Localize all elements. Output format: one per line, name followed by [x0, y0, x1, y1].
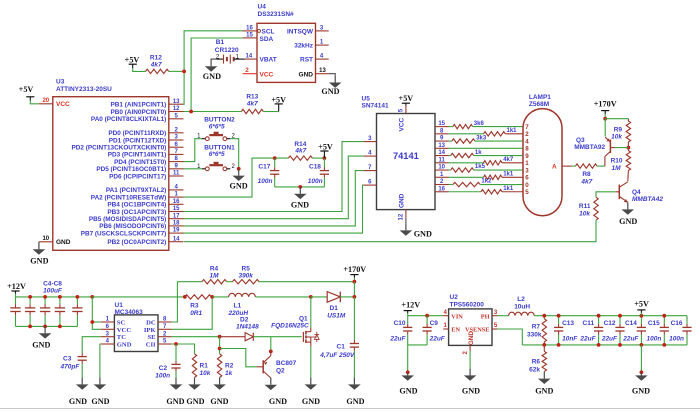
- pin 16 SCL of U4: [242, 30, 257, 32]
- capacitor C17 100n: [274, 158, 276, 167]
- capacitor C1 4,7uF 250V: [353, 297, 355, 340]
- ground at buttons: [238, 169, 240, 176]
- svg-text:4k7: 4k7: [503, 157, 514, 163]
- resistor 3k3 digit row 3: [452, 139, 475, 143]
- pin 2 PD0 of U3: [169, 132, 184, 134]
- svg-text:10: 10: [438, 165, 445, 171]
- svg-text:R2: R2: [225, 362, 234, 369]
- svg-text:C14: C14: [625, 320, 637, 327]
- svg-text:U2: U2: [450, 294, 459, 301]
- capacitor C11 22uF: [598, 316, 600, 324]
- svg-text:GND: GND: [399, 387, 417, 396]
- svg-text:10k: 10k: [579, 211, 590, 218]
- svg-text:1: 1: [525, 160, 529, 167]
- junction Q2 emitter: [269, 350, 273, 354]
- pin 2 of U5: [435, 184, 449, 186]
- svg-text:U5: U5: [362, 96, 371, 103]
- wire gate node down to Q2 emitter: [270, 337, 272, 350]
- wire +5V to R12: [133, 68, 146, 71]
- pin 1 PA2 of U3: [169, 196, 184, 198]
- wire C10/C9 bottom: [408, 344, 427, 346]
- capacitor C18 100n: [323, 158, 325, 167]
- ground at R1: [194, 378, 196, 385]
- pin 19 PB7 of U3: [169, 232, 184, 234]
- junction D2 anode: [218, 335, 222, 339]
- junction cap bank top: [76, 295, 80, 299]
- resistor R4 1M: [202, 280, 227, 284]
- page frame bottom: [0, 408, 700, 410]
- wire R14 to C18 node: [312, 157, 324, 159]
- svg-text:C15: C15: [648, 320, 660, 327]
- svg-text:PB6 (MISODOPCINT6): PB6 (MISODOPCINT6): [99, 223, 166, 230]
- svg-text:19: 19: [173, 228, 180, 234]
- wire IPK to R3 right: [172, 297, 213, 329]
- wire L1 to Q1 drain node: [255, 296, 310, 298]
- svg-text:GND: GND: [91, 397, 109, 406]
- svg-text:GND: GND: [229, 181, 247, 190]
- wire C10 to ground: [407, 345, 409, 372]
- wire resistor to lamp: [473, 126, 524, 128]
- wire resistor to lamp: [502, 191, 523, 193]
- svg-text:6: 6: [525, 175, 529, 182]
- wire SCL net PB1 to U4: [184, 31, 243, 104]
- svg-text:R8: R8: [582, 171, 591, 178]
- svg-text:+5V: +5V: [318, 142, 333, 151]
- ground at R6: [543, 372, 545, 379]
- svg-text:R6: R6: [532, 359, 541, 366]
- resistor 1k1 digit row 10: [481, 190, 502, 194]
- svg-text:+5V: +5V: [271, 95, 286, 104]
- wire PB7 to U5 pin 6: [184, 185, 364, 233]
- svg-text:C17: C17: [258, 163, 270, 170]
- svg-text:GND: GND: [468, 331, 475, 345]
- svg-text:10k: 10k: [611, 134, 622, 141]
- pin 12 PB0 of U3: [169, 111, 184, 113]
- wire R13 to +5V: [263, 111, 278, 113]
- svg-text:GND: GND: [203, 72, 221, 81]
- svg-text:DS3231SN#: DS3231SN#: [258, 11, 295, 18]
- svg-text:32kHz: 32kHz: [294, 43, 314, 50]
- svg-text:74141: 74141: [393, 151, 419, 161]
- pin 3 INTSQW of U4: [316, 30, 329, 32]
- junction C18 top: [323, 156, 327, 160]
- pin 13 GND of U4: [316, 73, 329, 75]
- pin 4 RST of U4: [316, 58, 329, 60]
- svg-text:GND: GND: [299, 71, 314, 78]
- wire +170V to Q3 emitter: [604, 119, 606, 137]
- svg-text:+170V: +170V: [594, 99, 617, 108]
- pin 4 of U5: [363, 155, 376, 157]
- svg-text:PD0 (PCINT11RXD): PD0 (PCINT11RXD): [108, 130, 166, 137]
- svg-text:1M: 1M: [611, 165, 621, 172]
- svg-text:13: 13: [319, 68, 326, 74]
- wire resistor to lamp: [474, 169, 524, 171]
- svg-text:GND: GND: [69, 397, 87, 406]
- svg-text:R5: R5: [242, 265, 251, 272]
- resistor R14 4k7: [288, 156, 312, 160]
- rtc U4 DS3231SN# body: [257, 23, 316, 82]
- ground at Q4 emitter: [627, 203, 629, 210]
- ground at battery B1: [211, 58, 216, 60]
- pin 6 VCC of U1: [101, 328, 115, 330]
- pin 10 GND of U3: [39, 241, 53, 243]
- svg-text:GND: GND: [269, 397, 287, 406]
- junction +170V output: [353, 295, 357, 299]
- resistor R1 10k: [192, 354, 196, 378]
- wire resistor to lamp: [475, 140, 523, 142]
- capacitor C4-C8 element: [44, 297, 46, 304]
- resistor 4k7 digit row 6: [484, 161, 503, 165]
- pin 1 32kHz of U4: [316, 44, 329, 46]
- svg-text:GND: GND: [32, 341, 50, 350]
- svg-text:14: 14: [173, 236, 180, 242]
- svg-text:C1: C1: [337, 343, 346, 350]
- wire CII to C2/R1: [172, 344, 195, 354]
- nixie tube LAMP1 Z568M body: [523, 109, 562, 216]
- svg-text:12: 12: [399, 213, 405, 220]
- svg-text:GND: GND: [210, 397, 228, 406]
- wire VSENSE to divider: [497, 329, 522, 345]
- junction cap bank top: [28, 295, 32, 299]
- svg-text:U4: U4: [258, 4, 267, 11]
- ground at C10/C9: [407, 372, 409, 375]
- svg-text:8: 8: [525, 146, 529, 153]
- svg-text:62k: 62k: [529, 366, 540, 373]
- ground at C17/C18: [299, 187, 301, 194]
- svg-text:13: 13: [173, 99, 180, 105]
- svg-text:GND: GND: [186, 397, 204, 406]
- svg-text:+12V: +12V: [401, 300, 420, 309]
- pin 1 of U5: [435, 176, 449, 178]
- capacitor C16 100n: [686, 316, 688, 324]
- wire R3 to L1: [212, 296, 228, 298]
- svg-text:1k1: 1k1: [503, 171, 514, 177]
- capacitor C4-C8 element: [29, 297, 31, 304]
- wire R11 to PB2: [184, 220, 596, 242]
- svg-text:PB4 (OC1BPCINT4): PB4 (OC1BPCINT4): [107, 202, 166, 209]
- pin 10 of U5: [435, 169, 449, 171]
- svg-text:L1: L1: [234, 302, 242, 309]
- svg-text:+5V: +5V: [19, 85, 34, 94]
- svg-text:+5V: +5V: [634, 300, 649, 309]
- pin 12 GND of U5: [405, 210, 407, 218]
- ground at C3: [81, 378, 83, 385]
- svg-text:4k7: 4k7: [246, 101, 258, 108]
- svg-text:17: 17: [173, 213, 180, 219]
- pin 15 PB3 of U3: [169, 211, 184, 213]
- wire U5 to anode resistor row 1: [449, 126, 453, 128]
- inductor L2 10uH: [509, 312, 535, 316]
- junction SCL/R12: [182, 70, 186, 74]
- junction R7/R6: [542, 343, 546, 347]
- svg-text:1k1: 1k1: [503, 186, 514, 192]
- resistor R10 1M: [627, 148, 629, 151]
- inductor L1 220uH: [229, 293, 256, 297]
- svg-text:PB2 (OC0APCINT2): PB2 (OC0APCINT2): [107, 239, 166, 246]
- wire +12V top bus: [16, 296, 93, 298]
- svg-text:10nF: 10nF: [562, 336, 578, 343]
- svg-text:7: 7: [525, 124, 529, 131]
- svg-text:PD3 (PCINT14INT1): PD3 (PCINT14INT1): [108, 152, 167, 159]
- svg-text:PD1 (PCINT12TXD): PD1 (PCINT12TXD): [109, 137, 167, 144]
- svg-text:R11: R11: [579, 203, 591, 210]
- svg-text:GND: GND: [535, 387, 553, 396]
- resistor 1k1 digit row 8: [484, 175, 503, 179]
- svg-text:15: 15: [438, 121, 445, 127]
- wire D1 to +170V: [340, 296, 354, 298]
- svg-text:BUTTON2: BUTTON2: [204, 116, 235, 123]
- svg-text:ATTINY2313-20SU: ATTINY2313-20SU: [56, 86, 112, 93]
- svg-text:5: 5: [525, 189, 529, 196]
- svg-text:FQD16N25C: FQD16N25C: [271, 322, 309, 329]
- wire U5 to anode resistor row 7: [449, 169, 451, 171]
- pin 4 GND of U1: [101, 343, 115, 345]
- regulator U2 TPS560200 body: [449, 309, 492, 346]
- pin 14 VBAT of U4: [245, 58, 257, 60]
- junction cap bank top: [90, 295, 94, 299]
- svg-text:0R1: 0R1: [190, 310, 202, 317]
- pin 13 of U5: [435, 147, 449, 149]
- svg-text:C11: C11: [583, 320, 595, 327]
- svg-text:0: 0: [525, 182, 529, 189]
- svg-text:GND: GND: [117, 342, 132, 349]
- wire D2 to Q1 gate: [253, 336, 301, 338]
- svg-text:GND: GND: [632, 387, 650, 396]
- svg-text:390k: 390k: [238, 273, 253, 280]
- svg-text:C9: C9: [430, 320, 439, 327]
- svg-text:16: 16: [173, 199, 180, 205]
- wire +12V to VIN bus: [407, 313, 409, 316]
- wire PH to L2: [497, 315, 508, 317]
- ground at R2: [219, 378, 221, 385]
- svg-text:1k5: 1k5: [475, 164, 486, 170]
- wire PA2 to C17 node: [184, 158, 289, 197]
- svg-text:18: 18: [173, 221, 180, 227]
- svg-text:SDA: SDA: [260, 36, 274, 43]
- svg-text:R10: R10: [611, 158, 623, 165]
- wire resistor to lamp: [474, 155, 524, 157]
- ground at U2: [469, 369, 471, 376]
- wire U5 to anode resistor row 10: [449, 191, 482, 193]
- pin 7 PD3 of U3: [169, 153, 184, 155]
- svg-text:10uH: 10uH: [514, 304, 530, 311]
- svg-text:B1: B1: [216, 39, 225, 46]
- svg-text:R7: R7: [532, 323, 541, 330]
- svg-text:470pF: 470pF: [60, 363, 81, 370]
- pin 8 PD4 of U3: [169, 161, 184, 163]
- svg-text:C16: C16: [671, 320, 683, 327]
- svg-text:22uF: 22uF: [601, 336, 618, 343]
- capacitor C4-C8 element: [59, 297, 61, 304]
- capacitor C9 22uF: [426, 316, 428, 324]
- wire R5 to +170V node: [259, 281, 354, 283]
- wire DC pin up to feedback row: [172, 282, 178, 322]
- svg-text:22uF: 22uF: [579, 336, 596, 343]
- wire bus to R3: [92, 296, 185, 298]
- svg-text:D2: D2: [240, 317, 249, 324]
- junction C17 top: [273, 156, 277, 160]
- switch BUTTON1 6*6*5: [202, 168, 206, 170]
- svg-text:22uF: 22uF: [389, 336, 406, 343]
- svg-text:CR1220: CR1220: [215, 47, 239, 54]
- pin 14 PB2 of U3: [169, 241, 184, 243]
- wire Q1 source to ground: [310, 346, 312, 378]
- ground at C2: [175, 378, 177, 385]
- ground at Q2: [270, 378, 272, 385]
- wire U5 to anode resistor row 6: [449, 162, 484, 164]
- junction left gnd drop: [406, 370, 410, 374]
- svg-text:+5V: +5V: [399, 94, 414, 103]
- svg-text:+5V: +5V: [125, 55, 140, 64]
- svg-text:10: 10: [42, 236, 49, 242]
- wire PD4 to BUTTON2: [184, 139, 202, 162]
- svg-text:VCC: VCC: [56, 101, 70, 108]
- svg-text:PH: PH: [481, 313, 490, 320]
- wire L2 to output bus: [534, 315, 687, 317]
- svg-text:GND: GND: [166, 397, 184, 406]
- svg-text:R4: R4: [210, 265, 219, 272]
- svg-text:11: 11: [439, 157, 446, 163]
- driver U5 SN74141 body: [377, 114, 436, 210]
- svg-text:SE: SE: [148, 334, 157, 341]
- resistor R12 4k7: [146, 69, 169, 73]
- svg-text:U1: U1: [115, 302, 124, 309]
- svg-text:GND: GND: [291, 200, 309, 209]
- ground at C1: [353, 378, 355, 385]
- svg-text:LAMP1: LAMP1: [529, 94, 551, 101]
- wire Q3 base: [615, 147, 629, 149]
- resistor R7 330k: [543, 316, 545, 319]
- wire PB0 row to R13: [184, 111, 242, 113]
- svg-text:IPK: IPK: [144, 327, 157, 334]
- pin 4 PA1 of U3: [169, 189, 184, 191]
- wire PB5 to U5 pin 4: [184, 156, 364, 219]
- svg-text:VCC: VCC: [117, 327, 132, 334]
- wire SE to D2 node: [172, 336, 220, 338]
- junction cap bank top: [43, 295, 47, 299]
- svg-text:4,7uF 250V: 4,7uF 250V: [319, 352, 355, 359]
- wire cap bank bottom bus: [16, 325, 78, 327]
- svg-text:4k7: 4k7: [294, 148, 306, 155]
- svg-text:1k1: 1k1: [507, 128, 518, 134]
- svg-text:PA0 (PCINT8CLKIXTAL1): PA0 (PCINT8CLKIXTAL1): [91, 116, 166, 123]
- svg-text:2: 2: [525, 131, 529, 138]
- transistor Q2 BC807 PNP: [262, 360, 264, 373]
- junction R3 left: [183, 295, 187, 299]
- wire U5 to anode resistor row 2: [449, 133, 484, 135]
- pin 1 EN of U2: [443, 328, 448, 330]
- svg-text:1M: 1M: [209, 273, 219, 280]
- svg-text:9: 9: [525, 153, 529, 160]
- junction right gnd drop: [640, 370, 644, 374]
- ground at Q1 source: [310, 378, 312, 385]
- svg-text:100n: 100n: [258, 178, 273, 185]
- pin 16 PB4 of U3: [169, 203, 184, 205]
- pin 5 VCC of U5: [405, 106, 407, 114]
- pin 8 of U5: [435, 133, 449, 135]
- svg-text:GND: GND: [462, 387, 480, 396]
- transistor Q4 MMBTA42 NPN: [618, 185, 620, 200]
- capacitor C4-C8 element: [76, 297, 78, 304]
- junction buttons gnd: [237, 167, 241, 171]
- svg-text:Z568M: Z568M: [529, 101, 549, 108]
- mcu U3 ATTINY2313-20SU body: [53, 97, 169, 251]
- svg-text:Q1: Q1: [299, 315, 308, 322]
- pin 6 PD2 of U3: [169, 146, 184, 148]
- junction cap bank top: [58, 295, 62, 299]
- pin 15 of U5: [435, 126, 449, 128]
- ground at U5 pin 12: [405, 218, 407, 224]
- svg-text:4: 4: [525, 138, 529, 145]
- junction Q3 base / R9 / R10: [627, 146, 631, 150]
- capacitor C3 470pF at TC: [82, 337, 101, 354]
- resistor R3 0R1: [185, 295, 212, 299]
- pin 6 of U5: [363, 184, 376, 186]
- svg-text:GND: GND: [56, 239, 71, 246]
- pin 2 GND of U2: [469, 345, 471, 350]
- svg-text:SN74141: SN74141: [362, 103, 389, 110]
- svg-text:C10: C10: [394, 320, 406, 327]
- svg-text:+170V: +170V: [343, 265, 366, 274]
- svg-text:GND: GND: [346, 397, 364, 406]
- ground at output caps: [640, 372, 642, 375]
- wire to D1: [311, 296, 327, 298]
- svg-text:PB0 (AIN0PCINT0): PB0 (AIN0PCINT0): [111, 109, 167, 116]
- svg-text:BC807: BC807: [276, 360, 297, 367]
- svg-text:16: 16: [438, 186, 445, 192]
- svg-text:PD2 (PCINT13CKOUTXCKINT0): PD2 (PCINT13CKOUTXCKINT0): [71, 145, 166, 152]
- capacitor C12 22uF: [619, 316, 621, 324]
- svg-text:PB1 (AIN1PCINT1): PB1 (AIN1PCINT1): [111, 102, 167, 109]
- svg-text:100n: 100n: [669, 336, 684, 343]
- svg-text:GND: GND: [302, 397, 320, 406]
- wire resistor to lamp: [502, 162, 523, 164]
- pin 3 TC of U1: [101, 336, 115, 338]
- wire PD5 to BUTTON1: [184, 168, 202, 170]
- svg-text:D1: D1: [330, 305, 339, 312]
- svg-text:22uF: 22uF: [429, 336, 446, 343]
- capacitor C2 100n: [175, 344, 177, 361]
- svg-text:100n: 100n: [155, 373, 170, 380]
- svg-text:PD4 (PCINT15T0): PD4 (PCINT15T0): [114, 159, 166, 166]
- junction U1 SC: [90, 320, 94, 324]
- pin 11 PD6 of U3: [169, 175, 184, 177]
- wire resistor to lamp: [505, 133, 523, 135]
- pin 17 PB5 of U3: [169, 218, 184, 220]
- svg-text:INTSQW: INTSQW: [287, 28, 314, 35]
- wire resistor to lamp: [502, 176, 523, 178]
- svg-text:22uF: 22uF: [622, 336, 639, 343]
- pin 5 VSENSE of U2: [492, 328, 497, 330]
- regulator U1 MC34063 body: [114, 315, 158, 352]
- resistor 3k6 digit row 1: [453, 124, 473, 128]
- junction cap bank bottom: [28, 325, 32, 329]
- wire +5V to U3 VCC: [30, 100, 39, 104]
- wire Q1 drain: [310, 297, 312, 327]
- svg-text:Q2: Q2: [276, 367, 285, 374]
- wire U1 GND pin to ground: [99, 344, 102, 378]
- wire +170V to R9: [605, 118, 628, 120]
- diode D1 US1M: [327, 292, 340, 303]
- svg-text:TPS560200: TPS560200: [450, 301, 485, 308]
- svg-text:GND: GND: [619, 217, 637, 226]
- svg-text:PA1 (PCINT9XTAL2): PA1 (PCINT9XTAL2): [106, 187, 166, 194]
- wire R4 to R5: [227, 281, 233, 283]
- pin 7 of U5: [363, 170, 376, 172]
- svg-text:+12V: +12V: [7, 282, 26, 291]
- svg-text:US1M: US1M: [327, 313, 346, 320]
- junction R2/Q2 base: [218, 347, 222, 351]
